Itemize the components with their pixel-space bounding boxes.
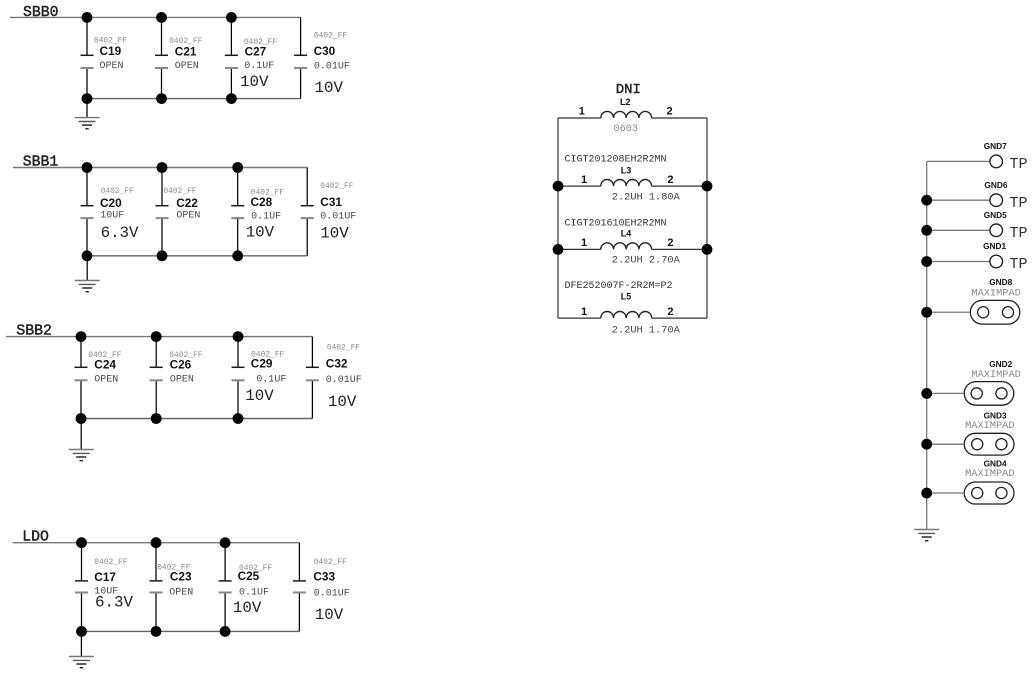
- svg-text:GND5: GND5: [984, 210, 1007, 220]
- svg-text:C20: C20: [100, 196, 122, 210]
- svg-text:10V: 10V: [245, 387, 274, 405]
- svg-text:OPEN: OPEN: [169, 587, 193, 598]
- svg-text:L2: L2: [620, 97, 631, 107]
- svg-text:GND2: GND2: [989, 359, 1012, 369]
- svg-text:MAXIMPAD: MAXIMPAD: [965, 420, 1014, 432]
- svg-text:C30: C30: [314, 44, 336, 58]
- svg-text:OPEN: OPEN: [175, 61, 199, 72]
- svg-text:C22: C22: [176, 196, 198, 210]
- svg-text:OPEN: OPEN: [176, 211, 200, 222]
- svg-text:MAXIMPAD: MAXIMPAD: [965, 468, 1014, 480]
- svg-text:L3: L3: [621, 166, 632, 176]
- svg-text:2: 2: [667, 174, 673, 186]
- svg-text:TP: TP: [1010, 225, 1028, 242]
- svg-text:2: 2: [667, 306, 673, 318]
- svg-text:0603: 0603: [614, 124, 638, 135]
- svg-text:MAXIMPAD: MAXIMPAD: [971, 369, 1020, 381]
- svg-text:0.01UF: 0.01UF: [320, 212, 356, 223]
- svg-text:C17: C17: [94, 570, 116, 584]
- svg-text:10V: 10V: [320, 224, 349, 242]
- svg-text:TP: TP: [1010, 256, 1028, 273]
- svg-text:C25: C25: [238, 569, 260, 583]
- svg-text:2.2UH 2.70A: 2.2UH 2.70A: [612, 254, 681, 266]
- svg-text:CIGT201610EH2R2MN: CIGT201610EH2R2MN: [565, 218, 667, 229]
- svg-text:1: 1: [581, 174, 587, 186]
- svg-text:OPEN: OPEN: [94, 374, 118, 385]
- svg-text:CIGT201208EH2R2MN: CIGT201208EH2R2MN: [565, 155, 667, 166]
- svg-text:TP: TP: [1010, 156, 1028, 173]
- svg-text:L5: L5: [621, 292, 632, 302]
- svg-text:C27: C27: [245, 44, 267, 58]
- svg-text:0.01UF: 0.01UF: [314, 62, 350, 73]
- svg-text:DNI: DNI: [616, 82, 641, 98]
- svg-text:0.01UF: 0.01UF: [326, 375, 362, 386]
- svg-text:0402_FF: 0402_FF: [320, 182, 353, 191]
- svg-text:GND6: GND6: [984, 180, 1007, 190]
- svg-text:OPEN: OPEN: [170, 374, 194, 385]
- svg-text:2.2UH 1.80A: 2.2UH 1.80A: [612, 192, 681, 204]
- svg-text:C28: C28: [251, 195, 273, 209]
- svg-text:GND8: GND8: [989, 277, 1012, 287]
- svg-text:10V: 10V: [240, 73, 269, 91]
- svg-text:DFE252007F-2R2M=P2: DFE252007F-2R2M=P2: [565, 281, 673, 292]
- svg-text:1: 1: [581, 237, 587, 249]
- svg-text:10V: 10V: [315, 606, 344, 624]
- svg-text:SBB1: SBB1: [23, 155, 59, 171]
- svg-text:2: 2: [667, 237, 673, 249]
- svg-text:C31: C31: [320, 195, 342, 209]
- svg-text:OPEN: OPEN: [100, 61, 124, 72]
- svg-text:1: 1: [581, 306, 587, 318]
- svg-text:TP: TP: [1010, 195, 1028, 212]
- svg-text:GND3: GND3: [984, 410, 1007, 420]
- svg-text:6.3V: 6.3V: [101, 224, 139, 242]
- svg-text:GND7: GND7: [984, 141, 1007, 151]
- svg-text:L4: L4: [621, 229, 632, 239]
- svg-text:C32: C32: [326, 357, 348, 371]
- svg-text:10UF: 10UF: [100, 211, 124, 222]
- svg-text:2.2UH 1.70A: 2.2UH 1.70A: [612, 324, 681, 336]
- svg-text:0.1UF: 0.1UF: [251, 212, 281, 223]
- svg-text:0402_FF: 0402_FF: [314, 31, 347, 40]
- svg-text:0.1UF: 0.1UF: [239, 588, 269, 599]
- svg-text:MAXIMPAD: MAXIMPAD: [971, 287, 1020, 299]
- svg-text:0.1UF: 0.1UF: [244, 61, 274, 72]
- svg-text:0402_FF: 0402_FF: [327, 343, 360, 352]
- svg-text:2: 2: [667, 106, 673, 118]
- svg-text:SBB0: SBB0: [23, 5, 59, 21]
- svg-text:C23: C23: [170, 569, 192, 583]
- svg-text:0.1UF: 0.1UF: [256, 375, 286, 386]
- svg-text:C26: C26: [170, 358, 192, 372]
- svg-text:GND1: GND1: [983, 241, 1006, 251]
- svg-text:C24: C24: [94, 358, 116, 372]
- svg-text:C19: C19: [100, 44, 122, 58]
- svg-text:6.3V: 6.3V: [95, 593, 133, 611]
- svg-text:C29: C29: [251, 357, 273, 371]
- svg-text:10V: 10V: [315, 79, 344, 97]
- svg-text:10V: 10V: [328, 393, 357, 411]
- svg-text:C21: C21: [175, 45, 197, 59]
- svg-text:C33: C33: [313, 570, 335, 584]
- svg-text:0402_FF: 0402_FF: [94, 558, 127, 567]
- svg-text:LDO: LDO: [22, 530, 49, 546]
- svg-text:10V: 10V: [246, 224, 275, 242]
- svg-text:1: 1: [579, 106, 585, 118]
- svg-text:10V: 10V: [233, 599, 262, 617]
- svg-text:SBB2: SBB2: [16, 324, 52, 340]
- svg-text:0402_FF: 0402_FF: [314, 558, 347, 567]
- svg-text:0.01UF: 0.01UF: [314, 588, 350, 599]
